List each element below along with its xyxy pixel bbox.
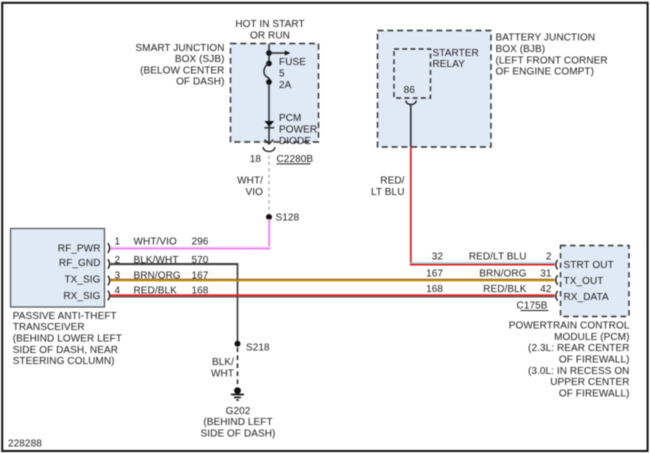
- svg-text:TRANSCEIVER: TRANSCEIVER: [13, 322, 85, 333]
- bus arrow to other circuits: [269, 51, 290, 56]
- svg-text:BLK/WHT: BLK/WHT: [134, 255, 179, 266]
- svg-text:167: 167: [426, 269, 443, 280]
- junction dot (bus tap): [266, 50, 272, 56]
- svg-text:(BEHIND LOWER LEFT: (BEHIND LOWER LEFT: [13, 334, 122, 345]
- svg-text:296: 296: [192, 236, 209, 247]
- svg-text:BOX (BJB): BOX (BJB): [496, 44, 546, 55]
- svg-text:C2280B: C2280B: [277, 154, 314, 165]
- svg-text:DIODE: DIODE: [279, 136, 311, 147]
- svg-text:BRN/ORG: BRN/ORG: [479, 269, 526, 280]
- svg-text:POWER: POWER: [279, 125, 317, 136]
- transceiver pin 3: [108, 270, 121, 285]
- svg-text:MODULE (PCM): MODULE (PCM): [554, 332, 629, 343]
- svg-text:HOT IN START: HOT IN START: [235, 19, 304, 30]
- wire RED/LT BLU vertical: [371, 147, 411, 266]
- wire from relay (black inside BJB): [410, 105, 412, 148]
- svg-text:SIDE OF DASH, NEAR: SIDE OF DASH, NEAR: [13, 345, 118, 356]
- PCM power diode: [264, 113, 317, 147]
- svg-text:OF FIREWALL): OF FIREWALL): [559, 355, 630, 366]
- PCM pin 42: [540, 284, 557, 301]
- node HOT IN START OR RUN: [235, 19, 304, 41]
- svg-text:168: 168: [426, 284, 443, 295]
- svg-text:FUSE: FUSE: [279, 57, 306, 68]
- svg-text:228288: 228288: [8, 439, 42, 450]
- svg-text:RED/LT BLU: RED/LT BLU: [469, 252, 527, 263]
- smart junction box SJB: [135, 43, 318, 142]
- svg-text:STEERING COLUMN): STEERING COLUMN): [13, 356, 115, 367]
- svg-text:86: 86: [404, 85, 416, 96]
- svg-text:(LEFT FRONT CORNER: (LEFT FRONT CORNER: [496, 55, 608, 66]
- svg-text:167: 167: [192, 270, 209, 281]
- svg-text:OF DASH): OF DASH): [176, 77, 224, 88]
- svg-text:VIO: VIO: [246, 187, 264, 198]
- svg-text:2: 2: [115, 255, 121, 266]
- wire BLK/WHT dashed to ground: [211, 348, 238, 387]
- svg-text:(3.0L: IN RECESS ON: (3.0L: IN RECESS ON: [528, 366, 630, 377]
- powertrain control module PCM: [561, 246, 630, 317]
- svg-text:1: 1: [115, 236, 121, 247]
- svg-text:PCM: PCM: [279, 113, 301, 124]
- wire labels right group: [426, 252, 527, 295]
- transceiver pin 2: [108, 255, 121, 269]
- svg-text:(BEHIND LEFT: (BEHIND LEFT: [203, 417, 272, 428]
- wire 4 RED/BLK 168: [111, 295, 555, 297]
- svg-text:C175B: C175B: [517, 300, 548, 311]
- wire WHT/VIO (dashed continuation): [237, 156, 269, 214]
- svg-text:S128: S128: [276, 213, 300, 224]
- svg-text:STRT OUT: STRT OUT: [564, 260, 614, 271]
- svg-text:SIDE OF DASH): SIDE OF DASH): [201, 428, 276, 439]
- svg-text:4: 4: [115, 285, 121, 296]
- svg-text:WHT: WHT: [211, 368, 234, 379]
- fuse 5 2A: [264, 57, 306, 91]
- passive anti-theft transceiver: [11, 229, 122, 368]
- battery junction box BJB: [378, 31, 608, 148]
- svg-text:3: 3: [115, 270, 121, 281]
- wire 1 WHT/VIO horizontal 296: [111, 247, 271, 249]
- svg-text:42: 42: [540, 284, 552, 295]
- svg-text:RF_GND: RF_GND: [59, 258, 101, 269]
- svg-text:WHT/VIO: WHT/VIO: [134, 236, 177, 247]
- PCM pin 2: [546, 252, 558, 270]
- svg-text:168: 168: [192, 285, 209, 296]
- svg-text:SMART JUNCTION: SMART JUNCTION: [135, 43, 224, 54]
- connector C175B: [517, 300, 549, 311]
- svg-text:RELAY: RELAY: [433, 59, 466, 70]
- svg-text:RED/: RED/: [380, 176, 404, 187]
- svg-text:OR RUN: OR RUN: [250, 30, 290, 41]
- arrow exiting SJB: [265, 140, 274, 144]
- svg-text:TX_SIG: TX_SIG: [64, 275, 100, 286]
- svg-text:WHT/: WHT/: [237, 176, 263, 187]
- ground G202: [201, 387, 276, 439]
- svg-text:TX_OUT: TX_OUT: [564, 276, 604, 287]
- svg-text:(BELOW CENTER: (BELOW CENTER: [140, 65, 224, 76]
- svg-text:BLK/: BLK/: [212, 357, 234, 368]
- svg-text:RX_SIG: RX_SIG: [63, 291, 100, 302]
- svg-text:32: 32: [432, 252, 444, 263]
- relay pin 86: [404, 85, 417, 105]
- svg-text:2: 2: [546, 252, 552, 263]
- svg-text:RF_PWR: RF_PWR: [58, 243, 101, 254]
- svg-text:LT BLU: LT BLU: [371, 187, 404, 198]
- wire 2 BLK/WHT 570: [111, 264, 239, 341]
- svg-text:5: 5: [279, 69, 285, 80]
- wire RED/LT BLU horizontal 32: [410, 263, 555, 265]
- svg-text:2A: 2A: [279, 80, 292, 91]
- svg-text:OF FIREWALL): OF FIREWALL): [559, 388, 630, 399]
- svg-text:BRN/ORG: BRN/ORG: [134, 270, 181, 281]
- svg-text:31: 31: [540, 269, 552, 280]
- svg-text:BOX (SJB): BOX (SJB): [175, 54, 225, 65]
- wire labels left group: [134, 236, 209, 296]
- wire: SJB internal feed: [268, 44, 270, 64]
- svg-text:S218: S218: [246, 342, 270, 353]
- wire 3 BRN/ORG 167: [111, 279, 555, 280]
- svg-text:POWERTRAIN CONTROL: POWERTRAIN CONTROL: [509, 321, 630, 332]
- PCM location text: [509, 321, 630, 400]
- transceiver pin 4: [108, 285, 121, 300]
- svg-text:(2.3L: REAR CENTER: (2.3L: REAR CENTER: [528, 343, 629, 354]
- transceiver pin 1: [108, 236, 121, 252]
- svg-text:PASSIVE ANTI-THEFT: PASSIVE ANTI-THEFT: [13, 311, 117, 322]
- svg-text:UPPER CENTER: UPPER CENTER: [550, 377, 629, 388]
- svg-text:STARTER: STARTER: [433, 48, 479, 59]
- splice S218: [235, 341, 271, 354]
- starter relay: [394, 48, 479, 98]
- PCM pin 31: [540, 269, 557, 285]
- connector C2280B pin 18: [250, 147, 314, 165]
- svg-text:570: 570: [192, 255, 209, 266]
- svg-text:OF ENGINE COMPT): OF ENGINE COMPT): [496, 67, 595, 78]
- svg-text:G202: G202: [226, 406, 251, 417]
- splice S128: [266, 213, 300, 224]
- svg-text:RED/BLK: RED/BLK: [134, 285, 178, 296]
- svg-text:RED/BLK: RED/BLK: [483, 284, 527, 295]
- svg-text:BATTERY JUNCTION: BATTERY JUNCTION: [496, 33, 596, 44]
- svg-text:RX_DATA: RX_DATA: [564, 292, 609, 303]
- svg-text:18: 18: [250, 154, 262, 165]
- wire WHT/VIO vertical (violet): [268, 219, 269, 248]
